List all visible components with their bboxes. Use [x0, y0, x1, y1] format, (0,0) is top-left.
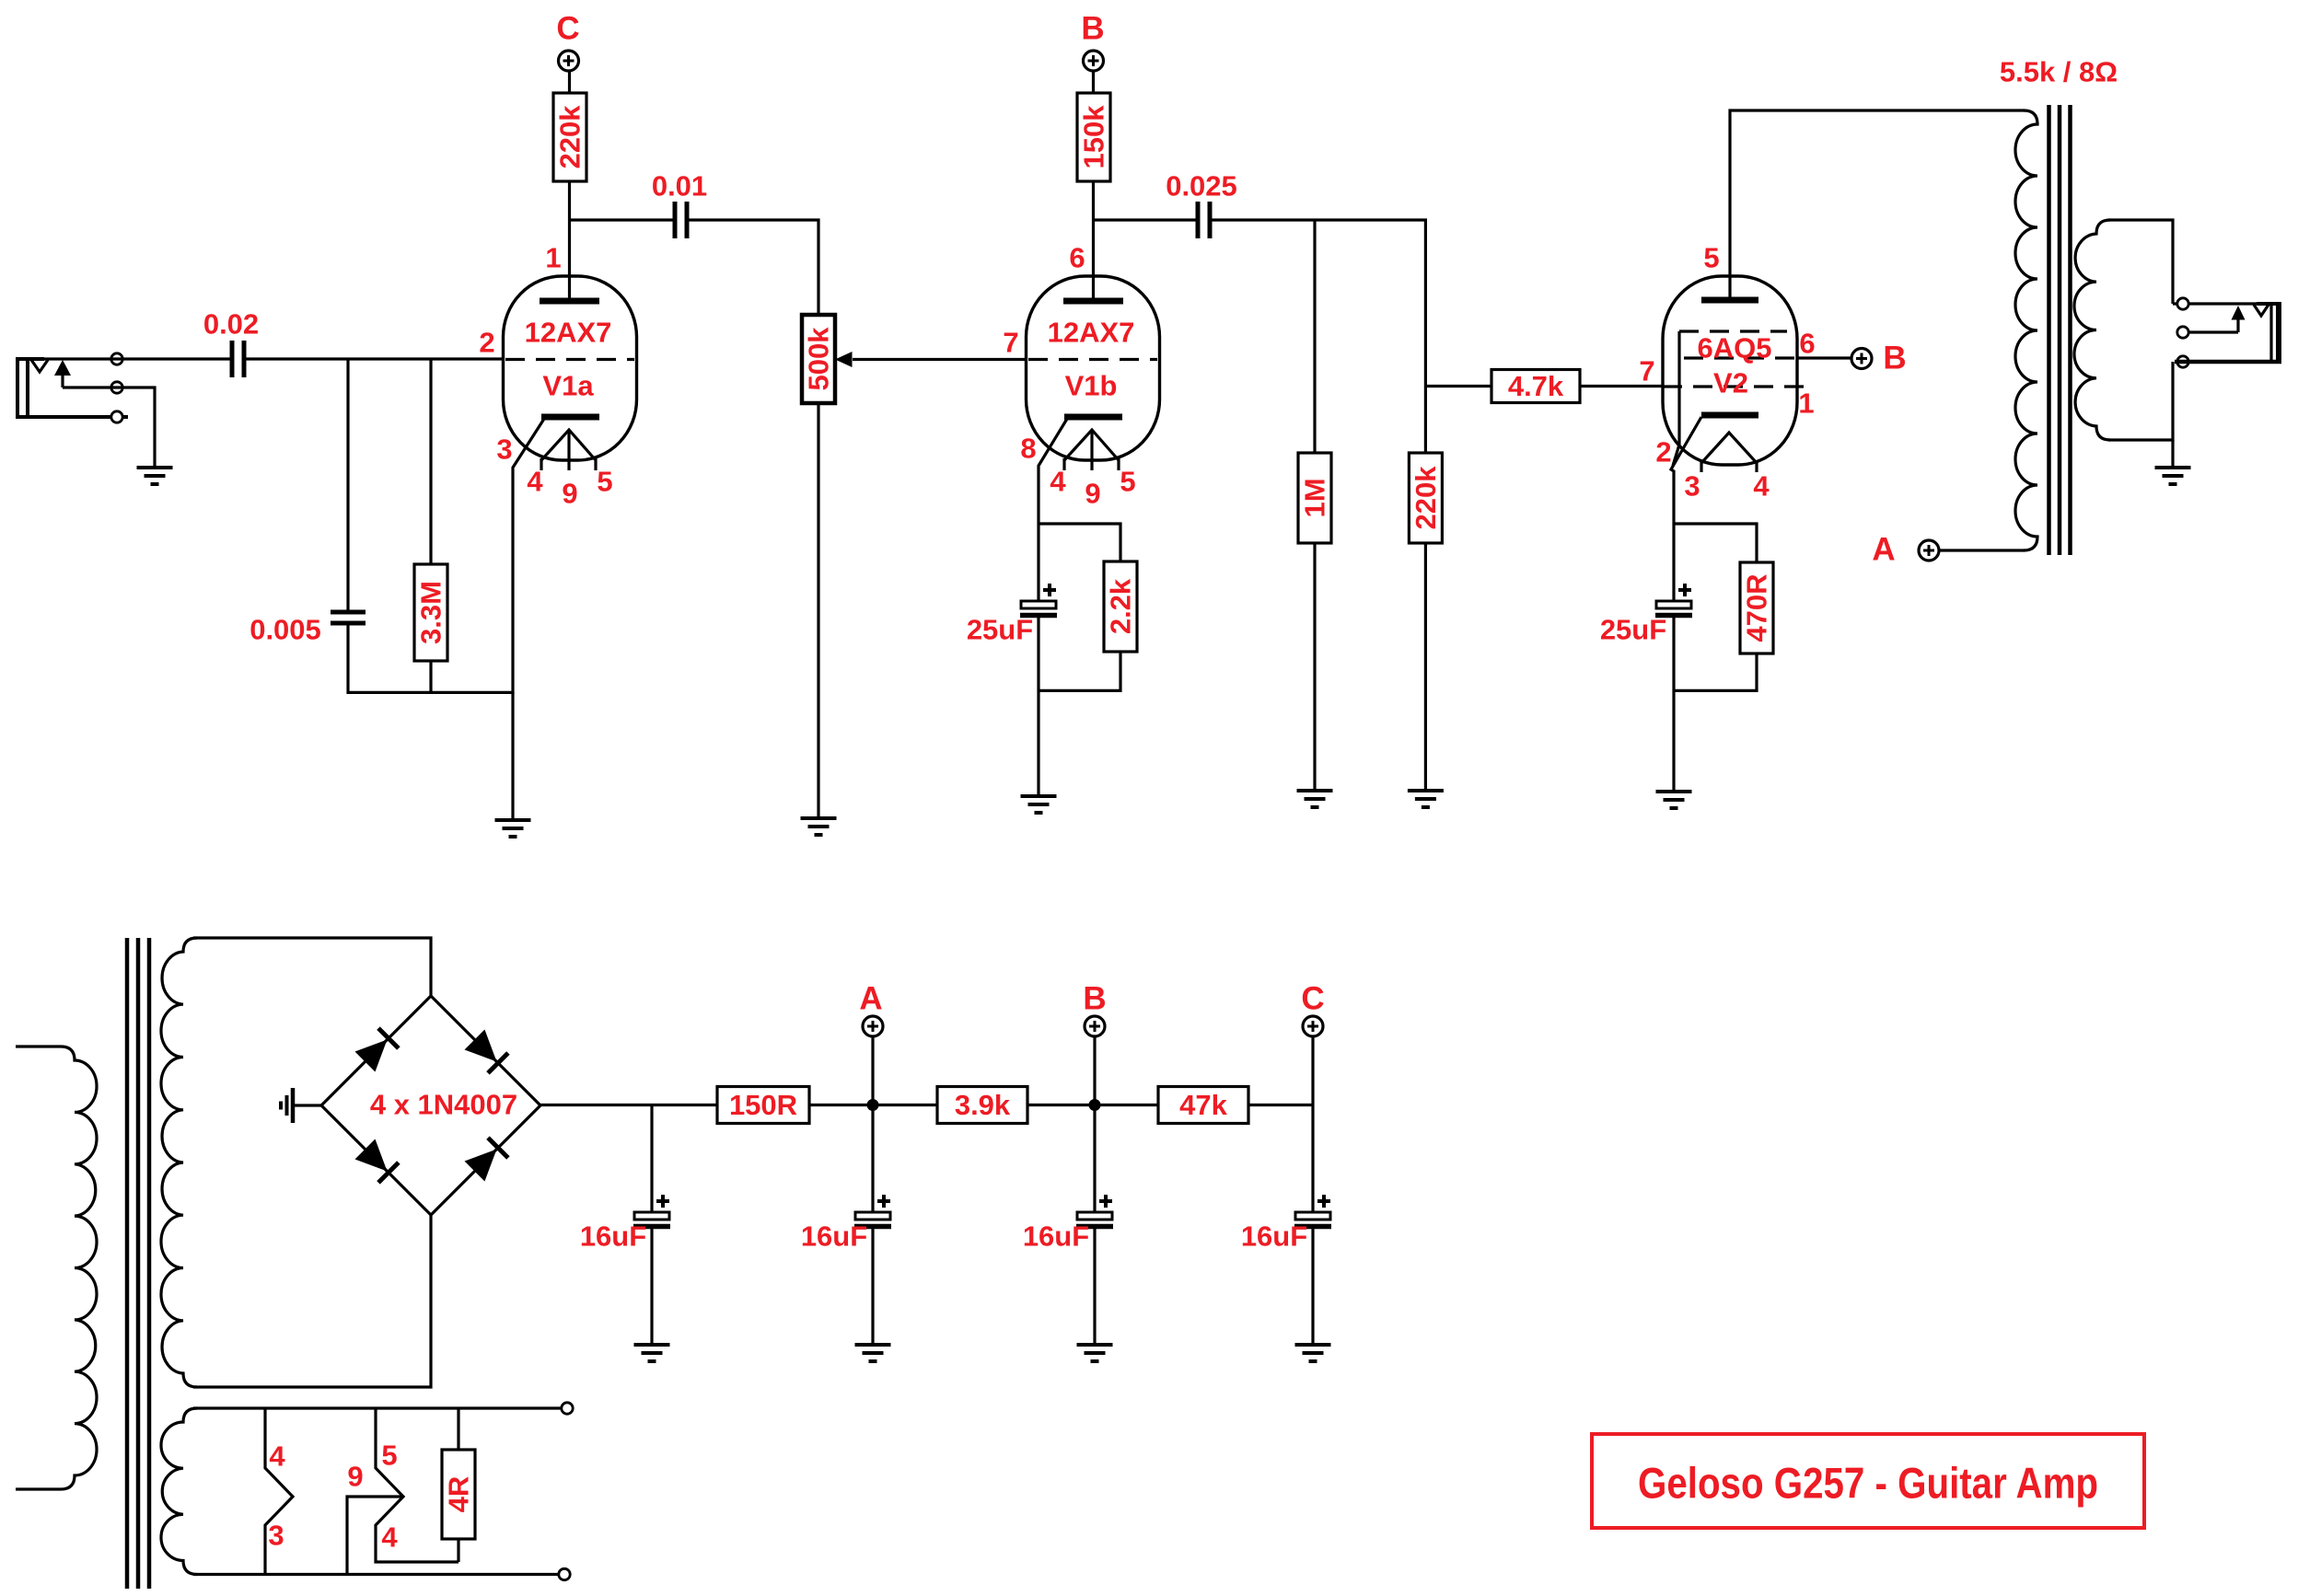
svg-text:25uF: 25uF [1600, 614, 1666, 646]
wire V2 25uF upper [1672, 525, 1675, 601]
svg-text:A: A [1872, 532, 1895, 568]
resistor 4R [442, 1450, 475, 1539]
wire V1a cathode to ground [511, 692, 514, 818]
title box [1592, 1434, 2144, 1528]
V2 pin label 2 [1655, 436, 1671, 468]
PT core [127, 938, 149, 1589]
wire cathode to 2.2k top [1039, 524, 1120, 561]
svg-text:4: 4 [381, 1521, 398, 1554]
diode D2 upper-right [465, 1030, 508, 1073]
output jack terminal circle 3 [2177, 356, 2188, 367]
wire OT secondary top to jack [2108, 220, 2173, 304]
wire pot to ground [817, 403, 819, 816]
ground bridge left [281, 1088, 293, 1123]
V1a heater pin 4 [540, 458, 542, 470]
wire heater bottom [193, 1573, 559, 1576]
heater terminal circle bottom [559, 1568, 570, 1579]
wire 16uF #1 to ground [650, 1228, 653, 1343]
wire V2 25uF lower [1672, 617, 1675, 790]
V1b pin label 9 [1085, 478, 1100, 510]
V1a name label [542, 370, 594, 402]
ground V1a cathode [495, 820, 531, 837]
ground 1M [1297, 791, 1333, 807]
resistor 220k anode V1a [553, 93, 586, 181]
output jack terminal circle 1 [2177, 298, 2188, 309]
V2 pin label 1 [1798, 387, 1814, 420]
svg-text:5: 5 [1120, 466, 1135, 498]
svg-text:4R: 4R [443, 1476, 475, 1513]
pentode V2 envelope [1663, 276, 1797, 465]
svg-text:4: 4 [527, 466, 543, 498]
pot wiper arrow [835, 352, 853, 367]
PT primary winding [16, 1047, 97, 1489]
diode D1 upper-left [355, 1028, 399, 1071]
ground input jack [137, 468, 173, 484]
svg-text:0.01: 0.01 [652, 170, 707, 202]
ground 16uF #2 [855, 1345, 891, 1361]
wire input tip to C1 [44, 357, 232, 360]
svg-text:Geloso G257 - Guitar Amp: Geloso G257 - Guitar Amp [1638, 1459, 2098, 1508]
svg-text:B: B [1081, 11, 1104, 47]
capacitor 16uF #4 [1241, 1195, 1331, 1253]
V2 cathode plate [1701, 412, 1758, 419]
wire grid to 0.005 [346, 359, 349, 610]
heater tap label 9 [347, 1461, 363, 1493]
V1b heater pin 9 [1090, 431, 1093, 470]
svg-text:5: 5 [597, 466, 612, 498]
OT core [2049, 105, 2071, 555]
svg-text:16uF: 16uF [1241, 1220, 1307, 1253]
wire heater to 4R [457, 1408, 459, 1450]
wire node B to cap3 [1093, 1105, 1096, 1213]
terminal B right [1851, 341, 1907, 376]
V1b heater pin 4 [1062, 458, 1065, 470]
capacitor 0.005 [250, 612, 366, 646]
V1b heater pin 5 [1117, 458, 1120, 470]
wire rail to cap1 [650, 1105, 653, 1213]
wire C1 to V1a grid pin 2 [244, 357, 504, 360]
svg-text:C: C [1301, 981, 1324, 1017]
wire terminal A to OT primary [1939, 549, 2025, 551]
svg-text:16uF: 16uF [580, 1220, 646, 1253]
V2 cathode lead pin 2 [1671, 417, 1701, 525]
PT heater winding [161, 1408, 197, 1575]
capacitor 0.02 [203, 308, 259, 378]
terminal C [556, 11, 579, 72]
wire secondary top to output jack tip [2173, 302, 2257, 305]
V2 suppressor connection [1673, 331, 1679, 466]
V2 screen grid dashed [1679, 330, 1787, 332]
wire node C up [1311, 1036, 1314, 1105]
svg-text:150k: 150k [1078, 105, 1110, 169]
ground 16uF #3 [1077, 1345, 1113, 1361]
svg-text:0.02: 0.02 [203, 308, 259, 341]
svg-text:2: 2 [479, 327, 494, 359]
svg-text:220k: 220k [1410, 466, 1442, 530]
svg-text:470R: 470R [1741, 573, 1773, 642]
heater pin 4-3 tap [265, 1408, 293, 1575]
capacitor 25uF V1b [967, 584, 1057, 646]
ground V2 cathode [1656, 792, 1692, 808]
ground 500k pot [801, 818, 837, 835]
svg-text:1: 1 [545, 242, 561, 274]
wire 3.9k to node B [1027, 1104, 1159, 1106]
wire grid-leak bottom rail [348, 691, 514, 694]
wire node to 4.7k [1425, 385, 1491, 387]
wire 1M to ground [1313, 543, 1316, 789]
wire secondary to ground [2171, 440, 2174, 466]
wire 220k to ground [1424, 543, 1427, 789]
wire 470R bottom [1674, 653, 1757, 690]
svg-text:7: 7 [1003, 327, 1018, 359]
V2 pin label 6 [1799, 328, 1815, 360]
resistor 1M [1298, 453, 1331, 543]
V1a pin label 1 [545, 242, 561, 274]
resistor 220k grid [1409, 453, 1442, 543]
svg-text:7: 7 [1639, 355, 1654, 387]
svg-text:2.2k: 2.2k [1105, 578, 1137, 634]
svg-text:5.5k / 8Ω: 5.5k / 8Ω [2000, 56, 2118, 88]
V2 heater [1701, 433, 1757, 463]
svg-text:220k: 220k [554, 105, 586, 169]
input jack terminal circle 1 [111, 353, 122, 364]
wire V2 anode to OT primary [1730, 110, 2025, 300]
bridge diamond [321, 996, 540, 1215]
output jack tip contact arrow [2232, 306, 2246, 332]
wire grid to 3.3M [429, 359, 432, 564]
capacitor 0.01 [652, 170, 707, 239]
svg-text:3.3M: 3.3M [415, 581, 447, 644]
V2 middle grid dashed [1684, 356, 1796, 359]
wire node A up [871, 1036, 874, 1105]
svg-text:6: 6 [1799, 328, 1815, 360]
svg-text:B: B [1083, 981, 1106, 1017]
ground 16uF #1 [634, 1345, 670, 1361]
V1a heater pin 5 [594, 458, 597, 470]
wire corner down to 220k [1424, 220, 1427, 453]
svg-text:9: 9 [1085, 478, 1100, 510]
resistor 4.7k [1491, 370, 1580, 403]
terminal B bottom [1083, 981, 1106, 1037]
wire heater top [193, 1406, 562, 1409]
V2 heater pin 3 [1700, 461, 1702, 472]
output jack body [2175, 304, 2281, 362]
wire 16uF #2 to ground [871, 1228, 874, 1343]
terminal B top [1081, 11, 1104, 72]
wire V2 cathode to 470R top [1674, 524, 1757, 562]
wire bridge output to 150R [540, 1104, 717, 1106]
svg-text:A: A [859, 981, 882, 1017]
V1a grid dashed line [505, 358, 634, 361]
wire node A to cap2 [871, 1105, 874, 1213]
wire node to 1M [1313, 220, 1316, 453]
svg-text:6: 6 [1069, 242, 1085, 274]
svg-text:16uF: 16uF [1023, 1220, 1089, 1253]
wire node B up [1093, 1036, 1096, 1105]
svg-text:B: B [1883, 341, 1906, 376]
V2 anode plate [1701, 297, 1758, 304]
V1b cathode plate [1064, 414, 1122, 421]
V2 pin label 7 [1639, 355, 1654, 387]
V2 type label 6AQ5 [1698, 332, 1772, 364]
potentiometer 500k [802, 315, 835, 403]
wire 220k to terminal C [568, 71, 571, 93]
V2 control grid dashed [1663, 385, 1812, 387]
capacitor 16uF #3 [1023, 1195, 1113, 1253]
node B junction [1089, 1099, 1101, 1111]
V1b type label 12AX7 [1048, 317, 1135, 349]
V1b pin label 4 [1050, 466, 1066, 498]
wire 150R to node A [809, 1104, 938, 1106]
wire jack ring to ground [63, 387, 155, 466]
svg-text:1M: 1M [1299, 478, 1331, 517]
wire 0.025 to 220k corner [1210, 218, 1427, 221]
V1a pin label 3 [496, 434, 512, 466]
svg-text:47k: 47k [1179, 1089, 1227, 1121]
capacitor 16uF #2 [801, 1195, 891, 1253]
V1b cathode lead pin 8 [1039, 419, 1067, 525]
svg-text:V1b: V1b [1065, 370, 1118, 402]
svg-text:3: 3 [496, 434, 512, 466]
ground 220k [1408, 791, 1444, 807]
resistor 150R [717, 1087, 809, 1124]
heater tap label 3 [268, 1520, 284, 1552]
triode V1a envelope [504, 276, 637, 460]
V1a heater pin 9 [567, 431, 570, 470]
svg-text:V1a: V1a [542, 370, 594, 402]
heater terminal circle top [562, 1403, 573, 1414]
wire 3.3M to bottom rail [429, 661, 432, 694]
input jack terminal circle 3 [111, 411, 122, 422]
wire wiper to V1b grid pin 7 [853, 358, 1027, 361]
wire bridge to chassis ground [292, 1104, 321, 1106]
triode V1b envelope [1027, 276, 1160, 460]
resistor 2.2k [1104, 561, 1137, 652]
wire 4.7k to V2 grid [1580, 385, 1663, 387]
svg-text:0.005: 0.005 [250, 614, 321, 646]
V1b anode plate [1063, 298, 1123, 305]
V1b pin label 7 [1003, 327, 1018, 359]
V1b pin label 8 [1020, 433, 1036, 465]
svg-text:16uF: 16uF [801, 1220, 867, 1253]
V1a cathode lead pin 3 [513, 419, 544, 694]
svg-text:9: 9 [347, 1461, 363, 1493]
V1a pin label 4 [527, 466, 543, 498]
resistor 150k anode V1b [1077, 93, 1110, 181]
svg-text:150R: 150R [729, 1089, 797, 1121]
svg-text:12AX7: 12AX7 [525, 317, 612, 349]
heater tap label 4b [381, 1521, 398, 1554]
V1b heater [1064, 430, 1119, 460]
node A junction [867, 1099, 879, 1111]
svg-text:4: 4 [269, 1440, 285, 1473]
wire 16uF #3 to ground [1093, 1228, 1096, 1343]
input jack tip contact arrow [54, 360, 71, 387]
OT label 5.5k / 8ohm [2000, 56, 2118, 88]
svg-text:4.7k: 4.7k [1508, 370, 1564, 402]
wire screen to terminal B [1796, 356, 1851, 359]
terminal C bottom [1301, 981, 1324, 1037]
resistor 47k [1158, 1087, 1248, 1124]
svg-text:4: 4 [1050, 466, 1066, 498]
svg-text:12AX7: 12AX7 [1048, 317, 1135, 349]
V1a pin label 5 [597, 466, 612, 498]
wire 150k to terminal B [1092, 71, 1095, 93]
input jack terminal circle 2 [111, 382, 122, 393]
svg-text:25uF: 25uF [967, 614, 1033, 646]
ground V1b cathode [1021, 796, 1057, 813]
V2 heater pin 4 [1755, 461, 1758, 472]
wire 25uF lower [1037, 617, 1039, 794]
V2 pin label 5 [1703, 242, 1719, 274]
V2 pin label 4 [1753, 470, 1770, 503]
terminal A bottom [859, 981, 883, 1037]
wire 47k to node C [1248, 1104, 1313, 1106]
wire anode node to 220k [568, 181, 571, 220]
wire HV top to bridge [193, 938, 431, 996]
svg-text:V2: V2 [1713, 367, 1748, 399]
wire 25uF upper [1037, 525, 1039, 601]
svg-text:1: 1 [1798, 387, 1814, 420]
heater tap label 4 [269, 1440, 285, 1473]
ground 16uF #4 [1295, 1345, 1331, 1361]
wire OT secondary bottom [2108, 362, 2173, 440]
wire anode to 0.025 [1094, 218, 1199, 221]
resistor 3.3M [414, 564, 447, 661]
heater pin 5-4 tap [376, 1408, 458, 1562]
wire 16uF #4 to ground [1311, 1228, 1314, 1343]
output jack terminal circle 2 [2177, 327, 2188, 338]
svg-text:3.9k: 3.9k [955, 1089, 1011, 1121]
V1a anode plate [540, 298, 599, 305]
svg-text:2: 2 [1655, 436, 1671, 468]
wire 0.005 to bottom rail [346, 623, 349, 694]
wire node C to cap4 [1311, 1105, 1314, 1213]
OT secondary winding [2074, 220, 2110, 440]
svg-text:3: 3 [1684, 470, 1700, 503]
OT primary winding [2015, 110, 2037, 550]
svg-text:5: 5 [1703, 242, 1719, 274]
svg-text:500k: 500k [803, 327, 835, 391]
wire V1a anode to node [568, 220, 571, 301]
svg-text:8: 8 [1020, 433, 1036, 465]
V2 pin label 3 [1684, 470, 1700, 503]
diode D4 lower-right [465, 1138, 508, 1181]
svg-text:6AQ5: 6AQ5 [1698, 332, 1772, 364]
PT HV secondary winding [161, 938, 197, 1387]
V2 name label [1713, 367, 1748, 399]
V1a heater [541, 430, 596, 460]
heater pin 9 wire [347, 1497, 401, 1575]
wire 4R bottom [457, 1539, 459, 1562]
capacitor 25uF V2 [1600, 584, 1692, 646]
capacitor 0.025 [1166, 170, 1237, 239]
svg-text:3: 3 [268, 1520, 284, 1552]
V1b grid dashed line [1028, 358, 1157, 361]
svg-text:9: 9 [562, 478, 577, 510]
input jack J1 body [16, 359, 128, 417]
wire output jack ring [2189, 330, 2238, 333]
svg-text:C: C [556, 11, 579, 47]
heater tap label 5 [381, 1440, 397, 1472]
svg-text:0.025: 0.025 [1166, 170, 1237, 202]
ground output secondary [2155, 468, 2191, 484]
wire 0.01 to pot [687, 220, 818, 315]
diode D3 lower-left [355, 1139, 399, 1183]
terminal A right [1872, 532, 1939, 568]
resistor 470R [1740, 562, 1773, 653]
wire HV bottom to bridge [193, 1214, 431, 1387]
V1b name label [1065, 370, 1118, 402]
capacitor 16uF #1 [580, 1195, 670, 1253]
bridge label 4 x 1N4007 [370, 1089, 517, 1121]
wire anode to 0.01 [570, 218, 676, 221]
wire 2.2k bottom [1039, 652, 1120, 690]
wire V1b anode to node [1092, 181, 1095, 301]
resistor 3.9k [937, 1087, 1027, 1124]
V1a pin label 9 [562, 478, 577, 510]
V1a type label 12AX7 [525, 317, 612, 349]
V1a cathode plate [541, 414, 599, 421]
svg-text:4 x 1N4007: 4 x 1N4007 [370, 1089, 517, 1121]
V1a pin label 2 [479, 327, 494, 359]
V1b pin label 5 [1120, 466, 1135, 498]
svg-text:4: 4 [1753, 470, 1770, 503]
V1b pin label 6 [1069, 242, 1085, 274]
svg-text:5: 5 [381, 1440, 397, 1472]
